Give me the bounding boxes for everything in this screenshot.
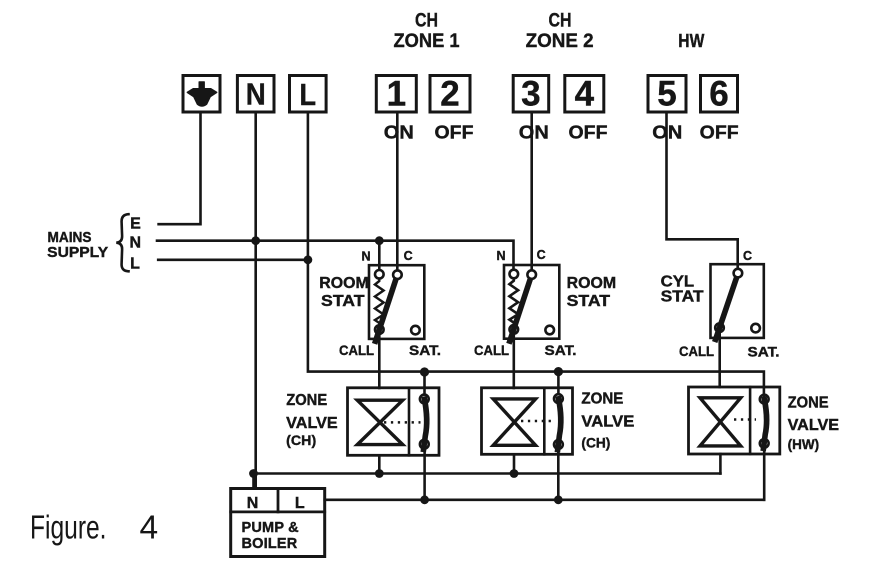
label ROOM STAT 1 <box>319 275 369 310</box>
svg-text:BOILER: BOILER <box>242 536 298 552</box>
stat2 N terminal <box>510 270 519 279</box>
stat1 N terminal <box>375 270 384 279</box>
terminal 2 box <box>430 76 470 113</box>
wire stat1 CALL to valve1 motor <box>378 334 381 388</box>
wire valve2 switch bottom to pump L line <box>557 449 560 500</box>
svg-text:C: C <box>537 248 546 262</box>
svg-text:6: 6 <box>709 75 728 114</box>
svg-text:CH: CH <box>549 10 572 32</box>
svg-text:C: C <box>743 249 752 263</box>
wire valve2 motor bottom to N return <box>513 454 516 473</box>
node CH ZONE 2 label <box>526 10 594 53</box>
wire terminal 5 to stat3 C <box>667 112 738 269</box>
terminal 5 box <box>648 76 686 113</box>
valve3 switch top terminal <box>760 395 769 404</box>
valve2 motor hourglass <box>493 399 535 445</box>
terminal L box <box>290 76 327 113</box>
svg-text:STAT: STAT <box>567 293 611 310</box>
wire L terminal down then across to valve switches <box>308 112 764 403</box>
label CYL STAT <box>661 274 705 306</box>
svg-text:4: 4 <box>140 510 159 547</box>
terminal 4 box <box>565 76 604 113</box>
stat1 CALL terminal <box>375 325 384 334</box>
svg-text:MAINS: MAINS <box>48 230 92 246</box>
junction dot L line / valve1 switch <box>420 367 429 376</box>
valve3 divider <box>749 387 752 454</box>
svg-text:L: L <box>300 77 317 112</box>
stat1 heater resistor <box>375 279 384 326</box>
stat1 C terminal <box>393 270 402 279</box>
svg-text:SAT.: SAT. <box>409 342 441 358</box>
svg-text:ZONE: ZONE <box>788 395 829 412</box>
svg-text:4: 4 <box>575 75 595 114</box>
zone valve 1 (CH) <box>348 388 440 456</box>
wire N terminal down to pump <box>254 112 257 489</box>
valve1 switch top terminal <box>420 395 429 404</box>
junction dot N return / valve2 <box>510 469 519 478</box>
stat3 switch lever <box>716 279 737 340</box>
svg-text:CALL: CALL <box>474 342 509 358</box>
svg-text:VALVE: VALVE <box>286 415 338 432</box>
wire E supply to earth terminal <box>159 112 201 224</box>
earth symbol <box>187 82 216 106</box>
svg-text:ROOM: ROOM <box>567 275 617 292</box>
terminal 3 box <box>513 76 549 113</box>
stat1 switch lever <box>376 280 396 341</box>
stat2 C terminal <box>527 270 536 279</box>
terminal E (earth) box <box>183 76 220 113</box>
pump and boiler box <box>231 489 325 557</box>
wire terminal 1 to stat1 C <box>396 112 399 271</box>
stat2 CALL terminal <box>510 325 519 334</box>
wire valve3 motor bottom to N return <box>719 454 722 474</box>
thermostat cyl stat <box>711 264 764 339</box>
valve2 switch top terminal <box>554 394 563 403</box>
junction dot N supply / stat1 N <box>375 236 384 245</box>
terminal 6 box <box>701 76 738 113</box>
svg-text:(CH): (CH) <box>286 433 316 448</box>
svg-text:CH: CH <box>415 10 438 32</box>
svg-text:5: 5 <box>657 75 676 114</box>
pump terminal row divider <box>231 510 325 513</box>
stat1 SAT terminal <box>411 326 420 335</box>
svg-text:(HW): (HW) <box>788 437 820 452</box>
terminal 1 box <box>376 76 416 113</box>
svg-text:3: 3 <box>521 75 540 114</box>
label MAINS SUPPLY <box>47 230 108 261</box>
svg-text:OFF: OFF <box>569 121 608 142</box>
valve2 switch lever <box>558 399 561 450</box>
svg-text:E: E <box>130 216 141 233</box>
stat2 SAT terminal <box>545 326 554 335</box>
svg-text:C: C <box>404 249 413 263</box>
valve2 dotted link <box>521 420 555 423</box>
svg-text:HW: HW <box>678 30 704 51</box>
wire valve1 switch top to L line <box>423 372 426 395</box>
thermostat room stat 1 <box>369 265 424 341</box>
terminal N box <box>237 76 274 113</box>
svg-text:1: 1 <box>387 75 406 114</box>
svg-text:SUPPLY: SUPPLY <box>47 245 108 261</box>
svg-text:ZONE 2: ZONE 2 <box>526 30 594 52</box>
brace { <box>116 214 128 271</box>
svg-text:VALVE: VALVE <box>788 417 840 434</box>
label ROOM STAT 2 <box>567 275 617 310</box>
svg-text:ZONE: ZONE <box>286 392 327 409</box>
stat3 CALL terminal <box>715 323 724 332</box>
svg-text:(CH): (CH) <box>581 436 610 451</box>
svg-text:N: N <box>246 77 266 112</box>
label ZONE VALVE (CH) 1 <box>286 392 338 448</box>
svg-text:Figure.: Figure. <box>30 510 107 547</box>
zone valve 3 (HW) <box>689 387 780 454</box>
valve3 dotted link <box>734 418 756 421</box>
stat2 switch lever <box>510 280 530 341</box>
wire N return line <box>254 472 721 475</box>
junction dot N return / pump <box>249 469 258 478</box>
valve1 divider <box>408 388 411 456</box>
svg-text:N: N <box>130 235 142 252</box>
svg-text:L: L <box>130 256 140 273</box>
svg-text:N: N <box>496 249 505 263</box>
valve3 motor hourglass <box>700 398 741 446</box>
svg-text:PUMP &: PUMP & <box>242 520 300 536</box>
junction dot N return / valve1 <box>375 469 384 478</box>
svg-text:ZONE: ZONE <box>581 390 623 407</box>
svg-text:SAT.: SAT. <box>545 342 577 358</box>
svg-text:STAT: STAT <box>321 293 365 310</box>
label ZONE VALVE (HW) <box>788 395 840 452</box>
wire valve3 switch bottom to pump L line <box>763 448 766 500</box>
valve3 switch bottom terminal <box>760 439 769 448</box>
svg-text:CALL: CALL <box>339 342 374 358</box>
svg-text:VALVE: VALVE <box>581 414 634 431</box>
svg-text:OFF: OFF <box>700 121 739 142</box>
stat3 SAT terminal <box>751 324 760 333</box>
pump N/L cell divider <box>277 489 280 512</box>
svg-text:N: N <box>247 495 259 512</box>
svg-text:SAT.: SAT. <box>748 344 780 360</box>
valve1 switch lever <box>424 399 427 449</box>
node CH ZONE 1 label <box>394 10 460 53</box>
wire valve1 motor bottom to N return <box>378 455 381 473</box>
junction dot pump L / valve2 switch <box>554 495 563 504</box>
zone valve 2 (CH) <box>482 388 573 455</box>
stat3 C terminal <box>734 269 743 278</box>
svg-text:ZONE 1: ZONE 1 <box>394 30 460 52</box>
svg-text:CALL: CALL <box>679 343 714 359</box>
svg-text:OFF: OFF <box>435 121 474 142</box>
junction dot pump L / valve1 switch <box>420 495 429 504</box>
svg-text:ROOM: ROOM <box>319 275 369 292</box>
wire pump L line <box>325 498 765 501</box>
svg-text:2: 2 <box>440 75 459 114</box>
label ZONE VALVE (CH) 2 <box>581 390 634 450</box>
stat2 heater resistor <box>509 278 518 325</box>
wire L supply line <box>158 258 308 261</box>
svg-text:ON: ON <box>519 121 549 142</box>
wire N line drop to stat1 N <box>378 241 381 271</box>
svg-text:N: N <box>361 249 370 263</box>
wire valve1 switch bottom to pump L line <box>423 449 426 500</box>
valve1 switch bottom terminal <box>420 440 429 449</box>
junction dot L supply / L terminal <box>304 255 313 264</box>
valve2 switch bottom terminal <box>554 440 563 449</box>
valve2 divider <box>543 388 546 455</box>
svg-text:STAT: STAT <box>661 289 705 306</box>
wire N supply line <box>157 241 514 270</box>
svg-text:ON: ON <box>384 121 414 142</box>
valve1 dotted link <box>384 421 421 424</box>
junction dot L line / valve2 switch <box>554 367 563 376</box>
svg-text:L: L <box>295 495 305 512</box>
wire stat2 CALL to valve2 motor <box>512 334 515 388</box>
wire N return to pump N <box>252 474 255 489</box>
wire stat3 CALL to valve3 motor <box>718 332 721 387</box>
junction dot N supply / N terminal <box>251 236 260 245</box>
valve3 switch lever <box>764 399 767 448</box>
wire valve2 switch top to L line <box>557 372 560 395</box>
wire terminal 3 to stat2 C <box>530 112 533 271</box>
thermostat room stat 2 <box>504 265 559 341</box>
valve1 motor hourglass <box>357 400 402 444</box>
